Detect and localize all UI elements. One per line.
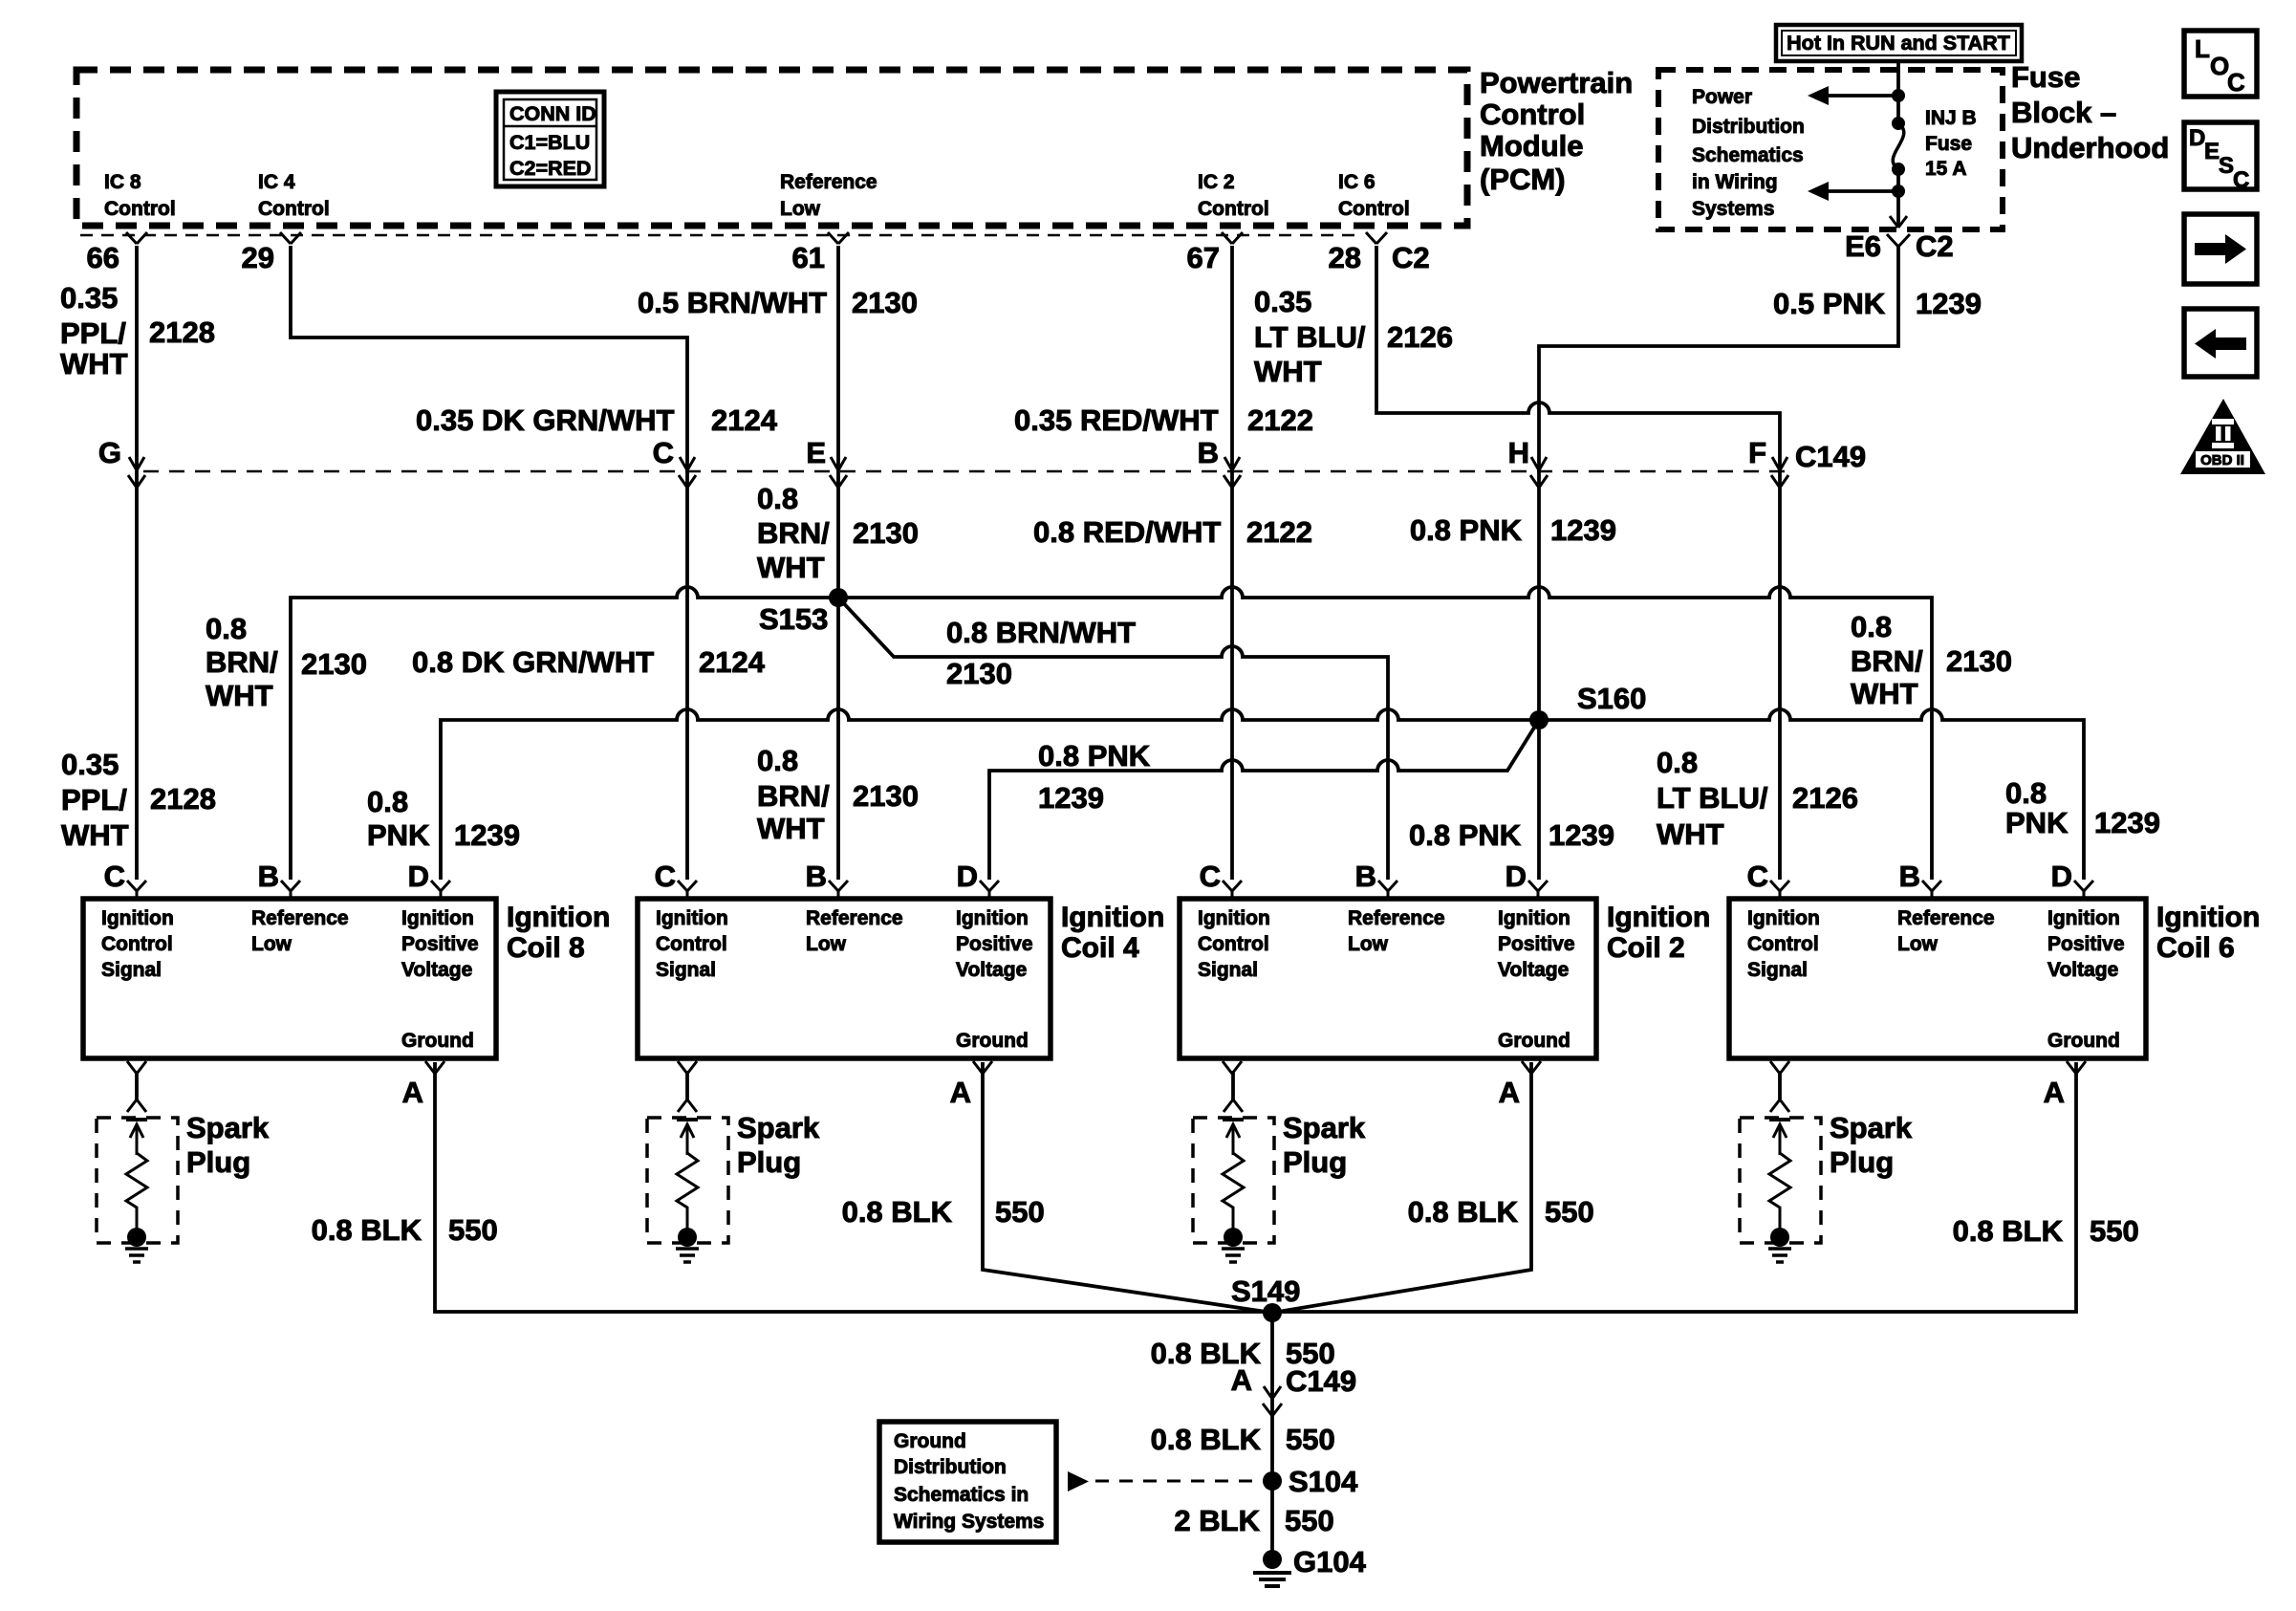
wire label 0.8 BLK 550 (coil6): [1953, 1214, 2139, 1248]
svg-text:0.8 BLK: 0.8 BLK: [1408, 1195, 1519, 1229]
svg-text:D: D: [2189, 125, 2205, 151]
svg-text:Ignition: Ignition: [2156, 902, 2260, 933]
wire label 0.8 BRN/WHT 2130 (coil6 B): [1851, 610, 2012, 710]
svg-text:WHT: WHT: [61, 818, 129, 852]
svg-text:C2: C2: [1916, 229, 1954, 263]
svg-text:0.8: 0.8: [367, 785, 408, 818]
svg-text:2128: 2128: [150, 782, 216, 816]
svg-text:S160: S160: [1577, 682, 1646, 715]
wire label 0.5 PNK 1239: [1773, 287, 1982, 320]
svg-text:0.5 PNK: 0.5 PNK: [1773, 287, 1886, 320]
DESC icon box: [2184, 122, 2257, 193]
svg-text:Low: Low: [780, 198, 821, 220]
svg-text:Control: Control: [1198, 198, 1269, 220]
wire label 0.35 DK GRN/WHT 2124: [416, 403, 778, 437]
wire label 0.8 DK GRN/WHT 2124 (coil4 C): [412, 645, 766, 679]
svg-text:Signal: Signal: [101, 959, 162, 981]
svg-text:Voltage: Voltage: [2047, 959, 2118, 981]
svg-text:PPL/: PPL/: [60, 316, 126, 350]
svg-text:WHT: WHT: [1657, 817, 1724, 851]
PCM pin 66 connector: [87, 232, 147, 274]
svg-text:Signal: Signal: [1198, 959, 1258, 981]
wire label 0.8 RED/WHT 2122: [1033, 515, 1312, 549]
svg-text:C2: C2: [1392, 241, 1430, 274]
svg-text:0.8 BLK: 0.8 BLK: [842, 1195, 953, 1229]
svg-text:2130: 2130: [853, 779, 919, 813]
coil4 ground wire to S149: [983, 1062, 1272, 1313]
svg-text:D: D: [408, 860, 429, 893]
svg-text:550: 550: [1286, 1337, 1335, 1370]
coil 4 bottom pin connectors: [678, 1061, 992, 1074]
PCM pin label IC 2 Control: [1198, 171, 1269, 220]
wire Reference Low pin 61 to coil4 B: [836, 246, 840, 880]
ignition positive voltage bus wire 1239 (y=753): [441, 709, 2084, 880]
svg-text:Voltage: Voltage: [401, 959, 472, 981]
left arrow to power distribution (bottom): [1808, 182, 1898, 201]
wire label 0.35 LT BLU/WHT 2126: [1254, 285, 1453, 388]
svg-text:0.8 PNK: 0.8 PNK: [1038, 739, 1151, 773]
ground G104: [1253, 1545, 1367, 1586]
svg-text:Control: Control: [1480, 98, 1585, 131]
svg-text:PNK: PNK: [2005, 806, 2069, 839]
svg-text:Coil 8: Coil 8: [507, 932, 585, 964]
svg-text:IC 8: IC 8: [104, 171, 141, 193]
svg-text:0.8: 0.8: [206, 612, 247, 645]
svg-text:67: 67: [1187, 241, 1220, 274]
svg-text:0.8 PNK: 0.8 PNK: [1409, 818, 1522, 852]
wire label 0.8 PNK 1239 (coil4 D): [1038, 739, 1151, 815]
Fuse Block - Underhood dashed box: [1658, 70, 2003, 229]
svg-text:Ground: Ground: [2047, 1030, 2120, 1052]
svg-text:BRN/: BRN/: [1851, 644, 1923, 678]
svg-text:Ignition: Ignition: [1747, 907, 1820, 929]
svg-text:C: C: [104, 860, 125, 893]
coil 6 top pin connectors: [1770, 881, 2093, 899]
svg-text:2126: 2126: [1387, 320, 1453, 354]
svg-text:C: C: [655, 860, 676, 893]
svg-text:CONN ID: CONN ID: [509, 102, 596, 125]
svg-text:E6: E6: [1845, 229, 1881, 263]
junction dot B+ feed: [1892, 89, 1905, 102]
svg-text:Reference: Reference: [780, 171, 877, 193]
PCM pin label IC 6 Control: [1338, 171, 1410, 220]
svg-text:0.8 PNK: 0.8 PNK: [1410, 513, 1523, 547]
svg-text:Ignition: Ignition: [1061, 902, 1164, 933]
Fuse Block - Underhood label: [2011, 60, 2169, 164]
forward arrow icon box: [2184, 214, 2257, 284]
svg-text:B: B: [258, 860, 279, 893]
spark plug 8 symbol: [125, 1120, 148, 1262]
svg-text:0.8: 0.8: [2005, 776, 2047, 810]
spark plug 4 label: [737, 1111, 820, 1179]
svg-text:IC 6: IC 6: [1338, 171, 1375, 193]
svg-text:C2=RED: C2=RED: [509, 157, 591, 180]
svg-text:LT BLU/: LT BLU/: [1657, 781, 1768, 815]
svg-text:0.8: 0.8: [1657, 746, 1698, 779]
svg-text:S104: S104: [1289, 1465, 1358, 1498]
svg-text:B: B: [1899, 860, 1920, 893]
svg-text:0.8 RED/WHT: 0.8 RED/WHT: [1033, 515, 1221, 549]
svg-text:WHT: WHT: [1851, 677, 1918, 710]
Power Distribution Schematics in Wiring Systems label: [1692, 86, 1805, 220]
connector C149 pin C: [653, 436, 696, 488]
wire label 0.8 BLK 550 (below S149): [1151, 1337, 1335, 1370]
svg-text:Ignition: Ignition: [956, 907, 1029, 929]
wire label 0.8 BRN/WHT 2130 (pin E above S153): [757, 482, 919, 584]
wire IC2 pin 67 to coil2 C: [1230, 246, 1234, 880]
PCM pin 61 connector: [792, 232, 849, 274]
svg-text:Ignition: Ignition: [656, 907, 728, 929]
svg-text:Wiring Systems: Wiring Systems: [894, 1511, 1044, 1533]
dashed reference line from ground distribution box: [1068, 1471, 1260, 1491]
svg-text:Control: Control: [104, 198, 176, 220]
svg-text:Low: Low: [806, 933, 847, 955]
coil 8 pin letters C B D: [104, 860, 429, 893]
coil 6 pin letters C B D: [1747, 860, 2072, 893]
svg-text:H: H: [1508, 436, 1529, 469]
svg-text:0.8 BLK: 0.8 BLK: [312, 1213, 422, 1247]
svg-text:2128: 2128: [149, 316, 215, 349]
svg-text:Plug: Plug: [1830, 1145, 1894, 1179]
spark plug 8 dashed box: [97, 1118, 178, 1243]
wire IC6 pin 28 to connector F and coil6 C: [1376, 246, 1780, 880]
coil 2 bottom pin connectors: [1223, 1061, 1541, 1074]
svg-text:2126: 2126: [1792, 781, 1858, 815]
svg-text:BRN/: BRN/: [206, 645, 278, 679]
ignition coil 2 box: [1180, 899, 1596, 1058]
svg-text:Ignition: Ignition: [1607, 902, 1710, 933]
svg-text:L: L: [2195, 34, 2210, 63]
svg-text:550: 550: [1545, 1195, 1594, 1229]
svg-text:0.8 BLK: 0.8 BLK: [1151, 1423, 1262, 1456]
svg-text:F: F: [1748, 436, 1766, 469]
wire label 0.8 PNK 1239 (coil2 D): [1409, 818, 1614, 852]
svg-text:PPL/: PPL/: [61, 783, 127, 816]
svg-text:0.8 BRN/WHT: 0.8 BRN/WHT: [946, 616, 1136, 649]
svg-text:0.35: 0.35: [1254, 285, 1311, 318]
svg-text:0.8: 0.8: [757, 744, 798, 777]
svg-text:Ignition: Ignition: [101, 907, 174, 929]
svg-text:29: 29: [242, 241, 274, 274]
svg-text:Ignition: Ignition: [507, 902, 610, 933]
wire below fuse: [1896, 169, 1900, 191]
svg-text:OBD II: OBD II: [2200, 452, 2244, 468]
svg-text:D: D: [957, 860, 978, 893]
svg-text:Reference: Reference: [1897, 907, 1995, 929]
svg-text:Plug: Plug: [186, 1145, 250, 1179]
coil 8 top pin connectors: [127, 881, 450, 899]
svg-text:550: 550: [995, 1195, 1045, 1229]
svg-text:Coil 6: Coil 6: [2156, 932, 2235, 964]
svg-text:0.8: 0.8: [757, 482, 798, 515]
svg-text:Low: Low: [1897, 933, 1939, 955]
spark plug 4 symbol: [676, 1120, 699, 1262]
PCM module dashed box: [76, 70, 1467, 226]
svg-text:2130: 2130: [852, 286, 918, 319]
svg-text:2130: 2130: [1946, 644, 2012, 678]
coil 8 bottom pin connectors: [127, 1061, 444, 1074]
connector C149 pin F: [1748, 436, 1788, 488]
svg-text:S149: S149: [1231, 1274, 1300, 1308]
PCM pin label IC 8 Control: [104, 171, 176, 220]
wire label 0.8 PNK 1239 (pin H): [1410, 513, 1616, 547]
ignition coil 8 box: [83, 899, 496, 1058]
svg-text:0.8 DK GRN/WHT: 0.8 DK GRN/WHT: [412, 645, 654, 679]
svg-text:Reference: Reference: [1348, 907, 1445, 929]
spark plug 4 dashed box: [647, 1118, 728, 1243]
svg-text:Positive: Positive: [401, 933, 479, 955]
svg-text:Positive: Positive: [2047, 933, 2125, 955]
svg-text:Voltage: Voltage: [1498, 959, 1569, 981]
svg-text:INJ B: INJ B: [1925, 107, 1977, 129]
wire label 0.35 RED/WHT 2122: [1014, 403, 1313, 437]
svg-text:A: A: [1499, 1076, 1520, 1109]
svg-text:1239: 1239: [454, 818, 520, 852]
svg-text:Coil 4: Coil 4: [1061, 932, 1139, 964]
wire label 0.35 PPL/WHT 2128 (coil8 C): [61, 748, 216, 852]
PCM label Powertrain Control Module (PCM): [1480, 66, 1633, 196]
svg-text:Ground: Ground: [401, 1030, 474, 1052]
svg-text:WHT: WHT: [757, 812, 825, 845]
svg-text:2122: 2122: [1247, 403, 1313, 437]
svg-text:Ignition: Ignition: [2047, 907, 2120, 929]
ground bus wire 550 from coil8 A to coil6 A: [435, 1062, 2076, 1312]
wire label 0.8 PNK 1239 (coil6 D): [2005, 776, 2160, 839]
svg-text:G: G: [98, 436, 121, 469]
svg-text:2122: 2122: [1246, 515, 1312, 549]
svg-text:PNK: PNK: [367, 818, 430, 852]
wire 0.5 PNK from E6/C2 to connector H and coil2 D: [1539, 247, 1898, 880]
svg-text:Powertrain: Powertrain: [1480, 66, 1633, 99]
svg-text:28: 28: [1329, 241, 1361, 274]
svg-text:2130: 2130: [853, 516, 919, 550]
coil 2 pin letters C B D: [1200, 860, 1527, 893]
wire to fuse: [1896, 96, 1900, 123]
connector C149 pin B: [1198, 436, 1241, 488]
spark plug wire from coil 8: [127, 1071, 146, 1112]
ignition coil 6 title: [2156, 902, 2260, 964]
svg-text:S153: S153: [759, 602, 828, 636]
splice S149: [1231, 1274, 1300, 1322]
wire IC4 pin 29 to connector C: [291, 246, 687, 880]
svg-text:0.8 BLK: 0.8 BLK: [1151, 1337, 1262, 1370]
svg-text:0.35 DK GRN/WHT: 0.35 DK GRN/WHT: [416, 403, 674, 437]
svg-text:A: A: [950, 1076, 971, 1109]
left arrow to power distribution (top): [1808, 86, 1898, 105]
coil 2 top pin connectors: [1223, 881, 1548, 899]
wire label 0.8 BLK 550 (coil8): [312, 1213, 498, 1247]
svg-text:Spark: Spark: [186, 1111, 270, 1144]
wire label 0.8 BRN/WHT 2130 (coil4 B): [757, 744, 919, 845]
PCM pin label IC 4 Control: [258, 171, 330, 220]
svg-text:Module: Module: [1480, 129, 1584, 163]
LOC icon box: [2184, 31, 2257, 97]
svg-text:Underhood: Underhood: [2011, 131, 2169, 164]
wire S149 to G104: [1270, 1313, 1274, 1554]
spark plug 6 symbol: [1768, 1120, 1791, 1262]
svg-text:C: C: [2227, 68, 2245, 97]
spark plug 2 label: [1283, 1111, 1366, 1179]
spark plug wire from coil 2: [1224, 1071, 1243, 1112]
spark plug 2 dashed box: [1193, 1118, 1274, 1243]
connector C149 pin A below S149: [1231, 1363, 1357, 1416]
ignition coil 4 title: [1061, 902, 1164, 964]
PCM connector dashed line: [80, 234, 1357, 237]
svg-text:Spark: Spark: [1830, 1111, 1913, 1144]
svg-text:2 BLK: 2 BLK: [1174, 1504, 1260, 1537]
svg-text:Ground: Ground: [956, 1030, 1029, 1052]
svg-text:Control: Control: [258, 198, 330, 220]
svg-text:G104: G104: [1293, 1545, 1367, 1578]
connector C149 pin H: [1508, 436, 1548, 488]
svg-text:2124: 2124: [699, 645, 766, 679]
svg-text:Control: Control: [656, 933, 727, 955]
svg-text:1239: 1239: [1550, 513, 1616, 547]
wire label 0.8 LT BLU/WHT 2126 (coil6 C): [1657, 746, 1858, 851]
wire label 0.8 BLK 550 (coil4): [842, 1195, 1045, 1229]
spark plug 6 dashed box: [1740, 1118, 1821, 1243]
wire label 0.35 PPL/WHT 2128 (upper): [60, 281, 215, 381]
wire label 0.8 BLK 550 (below C149): [1174, 1504, 1333, 1537]
svg-text:B: B: [1355, 860, 1376, 893]
svg-text:Hot In RUN and START: Hot In RUN and START: [1787, 32, 2010, 54]
svg-text:in Wiring: in Wiring: [1692, 171, 1778, 193]
svg-text:C1=BLU: C1=BLU: [509, 131, 590, 154]
spark plug 8 label: [186, 1111, 270, 1179]
svg-text:Signal: Signal: [656, 959, 716, 981]
ignition coil 8 title: [507, 902, 610, 964]
ignition coil 2 title: [1607, 902, 1710, 964]
INJ B Fuse 15 A label: [1925, 107, 1977, 180]
svg-text:Control: Control: [1747, 933, 1819, 955]
Hot In RUN and START box: [1776, 25, 2022, 61]
PCM pin 67 connector: [1187, 232, 1243, 274]
svg-text:B: B: [806, 860, 827, 893]
coil 6 bottom pin connectors: [1770, 1061, 2086, 1074]
fuse INJ B 15 A symbol: [1892, 117, 1905, 176]
svg-text:Distribution: Distribution: [894, 1456, 1007, 1478]
spark plug 2 symbol: [1222, 1120, 1245, 1262]
svg-text:Spark: Spark: [1283, 1111, 1366, 1144]
svg-text:D: D: [1505, 860, 1527, 893]
svg-text:15 A: 15 A: [1925, 158, 1967, 180]
svg-text:Control: Control: [1338, 198, 1410, 220]
svg-text:WHT: WHT: [1254, 355, 1322, 388]
svg-text:0.35: 0.35: [60, 281, 118, 315]
wire IC8 pin 66 to connector G: [135, 246, 139, 880]
spark plug 6 label: [1830, 1111, 1913, 1179]
svg-text:Control: Control: [101, 933, 173, 955]
svg-text:Ignition: Ignition: [1198, 907, 1270, 929]
svg-text:S: S: [2219, 153, 2234, 179]
wire label 0.8 BLK 550 (above C149): [1151, 1423, 1335, 1456]
spark plug wire from coil 6: [1770, 1071, 1789, 1112]
svg-text:2130: 2130: [301, 647, 367, 681]
svg-text:Ground: Ground: [894, 1430, 966, 1452]
svg-text:IC 2: IC 2: [1198, 171, 1235, 193]
svg-text:Block –: Block –: [2011, 96, 2116, 129]
svg-text:Control: Control: [1198, 933, 1269, 955]
connector E6 / C2 at fuse block output: [1845, 229, 1954, 263]
connector C149 pin G: [98, 436, 145, 488]
svg-text:Ground: Ground: [1498, 1030, 1570, 1052]
svg-text:C: C: [2233, 167, 2249, 193]
CONN ID legend box: [496, 92, 604, 186]
svg-text:Fuse: Fuse: [2011, 60, 2080, 94]
svg-text:D: D: [2051, 860, 2072, 893]
svg-text:66: 66: [87, 241, 119, 274]
svg-text:BRN/: BRN/: [757, 779, 830, 813]
svg-text:550: 550: [448, 1213, 498, 1247]
connector C149 pin E: [806, 436, 847, 488]
ignition coil 4 box: [638, 899, 1051, 1058]
svg-text:IC 4: IC 4: [258, 171, 295, 193]
svg-text:Distribution: Distribution: [1692, 116, 1805, 138]
svg-text:1239: 1239: [2094, 806, 2160, 839]
svg-text:2130: 2130: [946, 657, 1012, 690]
back arrow icon box: [2184, 309, 2257, 377]
svg-text:Spark: Spark: [737, 1111, 820, 1144]
svg-text:0.8 BLK: 0.8 BLK: [1953, 1214, 2064, 1248]
svg-text:0.8: 0.8: [1851, 610, 1892, 643]
svg-text:Low: Low: [251, 933, 292, 955]
svg-text:Reference: Reference: [251, 907, 349, 929]
svg-text:WHT: WHT: [60, 347, 128, 381]
svg-text:0.5 BRN/WHT: 0.5 BRN/WHT: [638, 286, 827, 319]
svg-text:0.35: 0.35: [61, 748, 119, 781]
coil 4 top pin connectors: [678, 881, 999, 899]
svg-text:(PCM): (PCM): [1480, 163, 1566, 196]
wire label 0.8 PNK 1239 (coil8 D): [367, 785, 520, 852]
connector C149 dashed line: [143, 470, 1786, 473]
svg-text:Reference: Reference: [806, 907, 903, 929]
branch wire S160 to coil4 D: [989, 720, 1539, 880]
PCM pin 28 connector: [1329, 232, 1387, 274]
svg-text:A: A: [402, 1076, 423, 1109]
svg-text:Plug: Plug: [1283, 1145, 1347, 1179]
svg-text:Low: Low: [1348, 933, 1389, 955]
branch wire S153 to coil2 B: [838, 598, 1388, 880]
splice S104: [1263, 1465, 1358, 1498]
wire label 0.5 BRN/WHT 2130: [638, 286, 918, 319]
PCM pin 29 connector: [242, 232, 301, 274]
junction dot below fuse: [1892, 185, 1905, 198]
svg-text:Schematics in: Schematics in: [894, 1484, 1029, 1506]
svg-text:Ignition: Ignition: [1498, 907, 1570, 929]
svg-text:61: 61: [792, 241, 825, 274]
svg-text:Positive: Positive: [956, 933, 1033, 955]
svg-text:Signal: Signal: [1747, 959, 1808, 981]
svg-text:BRN/: BRN/: [757, 516, 830, 550]
ground distribution schematics box: [879, 1422, 1056, 1542]
coil 4 pin letters C B D: [655, 860, 978, 893]
wire label 0.8 BRN/WHT 2130 (S153 branch): [946, 616, 1136, 690]
svg-text:Schematics: Schematics: [1692, 144, 1804, 166]
wire label 0.8 BRN/WHT 2130 (coil8 B): [206, 612, 367, 712]
ignition coil 6 box: [1729, 899, 2146, 1058]
svg-text:1239: 1239: [1549, 818, 1614, 852]
svg-text:WHT: WHT: [757, 551, 825, 584]
splice S153: [759, 588, 848, 636]
svg-text:Ignition: Ignition: [401, 907, 474, 929]
svg-text:C: C: [1747, 860, 1768, 893]
svg-text:2124: 2124: [711, 403, 778, 437]
svg-text:Voltage: Voltage: [956, 959, 1027, 981]
svg-text:B: B: [1198, 436, 1219, 469]
svg-text:Positive: Positive: [1498, 933, 1575, 955]
coil2 ground wire to S149: [1272, 1062, 1531, 1313]
wire from Hot In RUN into fuse block: [1896, 61, 1900, 96]
